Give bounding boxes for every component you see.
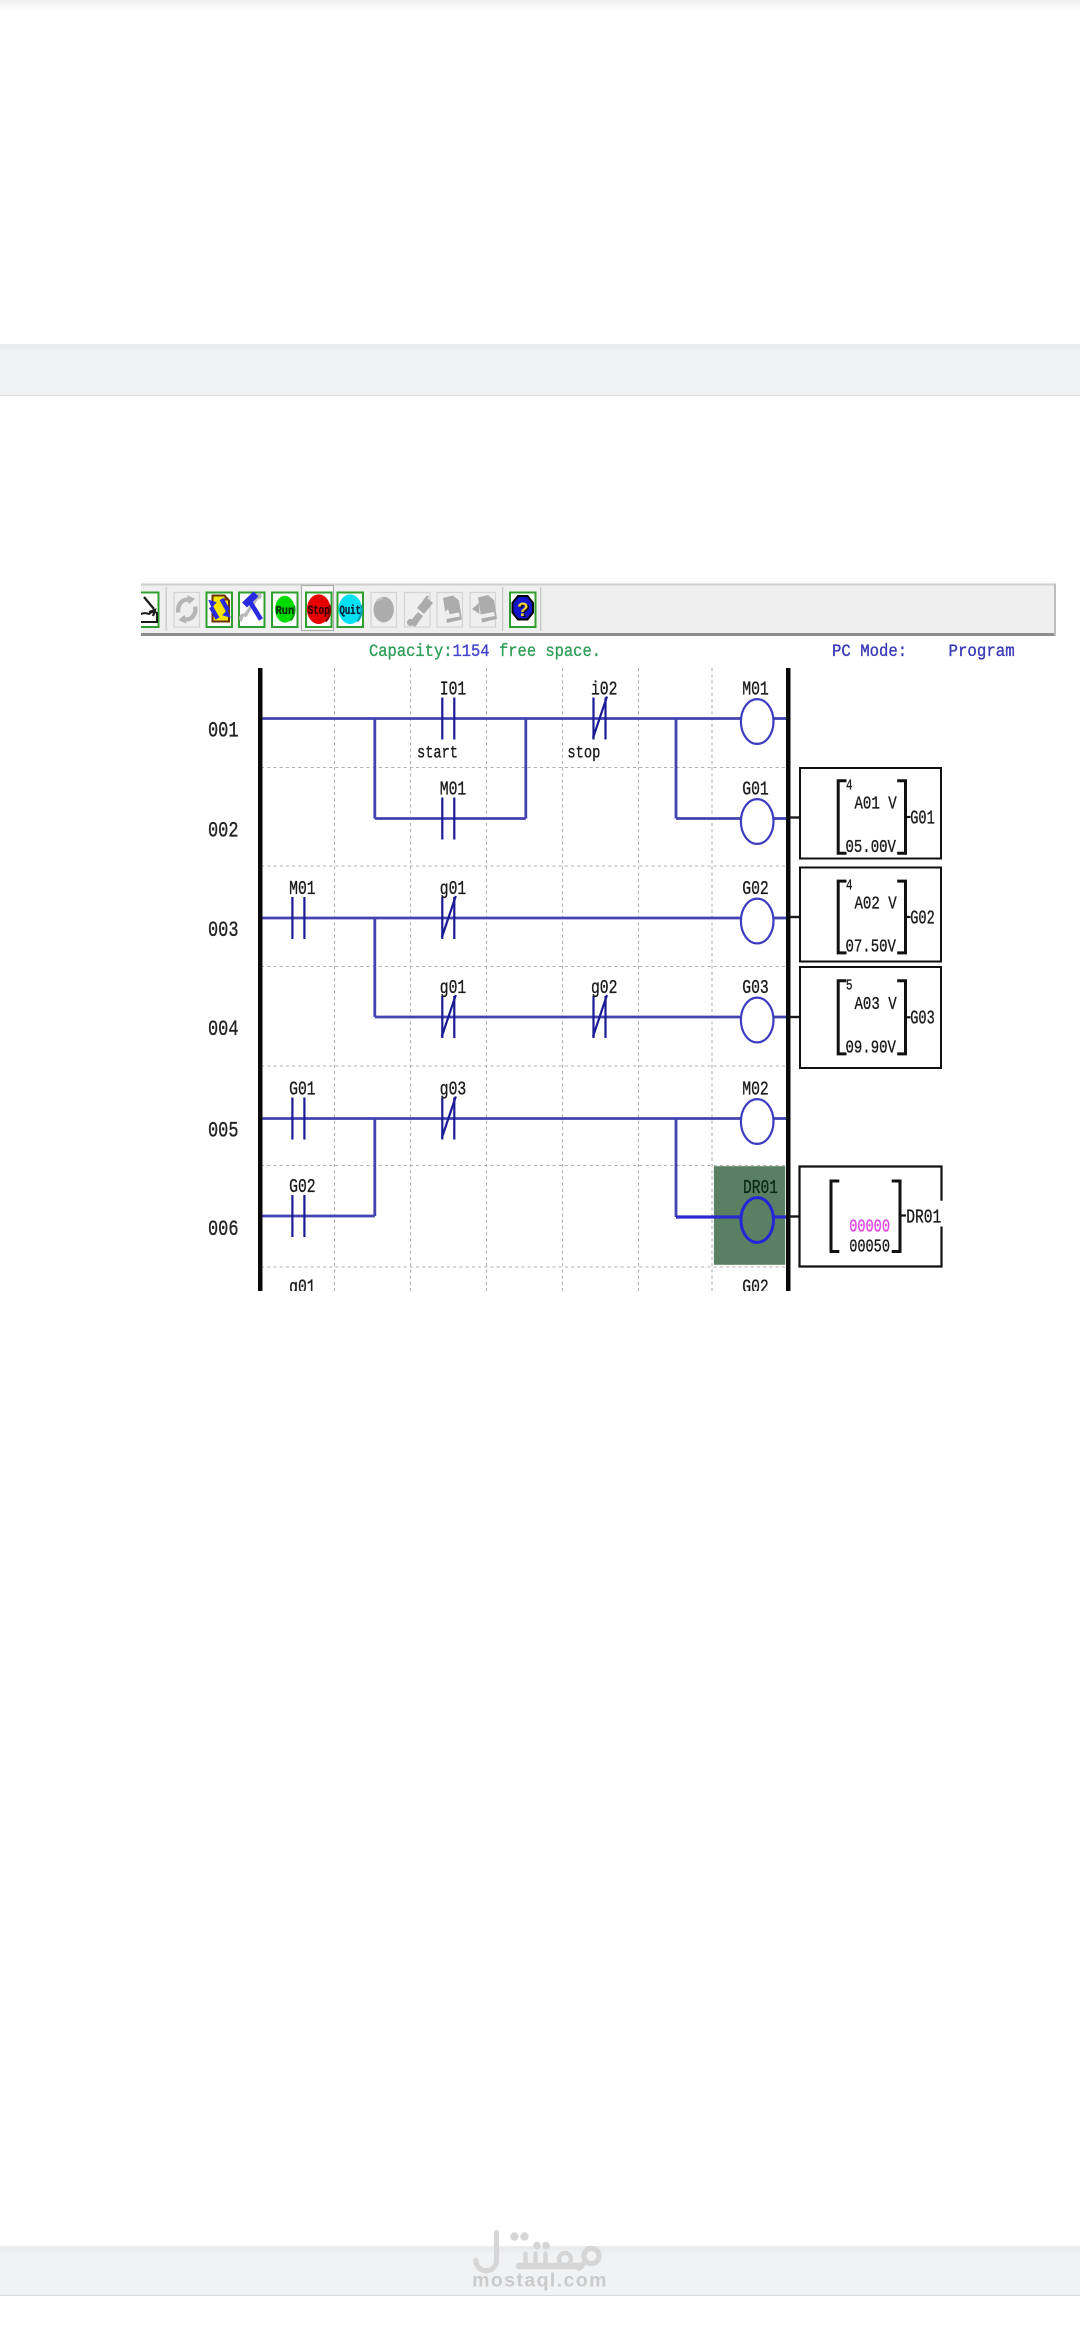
svg-text:g03: g03 — [440, 1078, 467, 1100]
svg-text:Capacity:: Capacity: — [369, 642, 453, 662]
svg-text:Quit: Quit — [339, 604, 361, 618]
wire rung 002 parallel branch — [375, 817, 526, 820]
top page band — [0, 344, 1080, 396]
left power rail — [258, 668, 263, 1291]
svg-text:4: 4 — [846, 777, 853, 794]
bottom page band — [0, 2246, 1080, 2296]
svg-text:00050: 00050 — [849, 1237, 890, 1258]
wire branch down rung 003-004 — [373, 918, 376, 1017]
top page gradient edge — [0, 0, 1080, 11]
svg-text:A01 V: A01 V — [854, 794, 896, 815]
svg-text:DR01: DR01 — [743, 1177, 778, 1199]
watermark mostaql logo — [455, 2225, 625, 2295]
coil G02 rung 003 — [741, 899, 774, 944]
contact g01 (NC) rung 004 — [442, 995, 456, 1038]
wire stub to function block 1 — [790, 816, 801, 818]
lam vertical + hook — [476, 2233, 497, 2271]
svg-text:1154: 1154 — [453, 642, 490, 662]
coil G01 rung 002 — [741, 799, 774, 844]
toolbar separator — [502, 587, 503, 631]
wire stub to function block 4 — [790, 1215, 801, 1217]
grid dashed lines — [261, 668, 790, 1291]
function block U4: counter DR01 — [800, 1167, 942, 1267]
coil G03 rung 004 — [741, 998, 774, 1043]
svg-text:DR01: DR01 — [906, 1207, 941, 1229]
function block U2: analog output G02 — [800, 868, 941, 962]
svg-text:G01: G01 — [742, 778, 769, 800]
wire rung 006 parallel branch — [263, 1215, 375, 1218]
contact g01 (NC) rung 003 — [442, 896, 456, 939]
wire rung 004 to rail — [774, 1016, 787, 1019]
qaf ring — [559, 2253, 571, 2265]
baseline bar with seen teeth — [519, 2263, 581, 2270]
output tick — [902, 1214, 907, 1216]
toolbar background — [141, 581, 1056, 636]
svg-text:004: 004 — [208, 1017, 239, 1042]
contact I01 (NO) rung 001 — [442, 698, 454, 740]
svg-text:g01: g01 — [289, 1276, 316, 1291]
svg-text:G01: G01 — [910, 807, 935, 829]
coil M01 rung 001 — [741, 699, 774, 744]
svg-text:Run: Run — [276, 604, 295, 618]
svg-text:M01: M01 — [289, 878, 316, 900]
coil DR01 rung 006 — [741, 1198, 774, 1243]
svg-text:Program: Program — [949, 642, 1015, 662]
svg-text:G02: G02 — [742, 878, 769, 900]
svg-text:5: 5 — [846, 977, 853, 994]
svg-text:002: 002 — [208, 819, 239, 844]
svg-text:G01: G01 — [289, 1078, 316, 1100]
contact g02 (NC) rung 004 — [593, 995, 607, 1038]
wire rung 003 to rail — [774, 917, 787, 920]
svg-text:Stop: Stop — [308, 604, 330, 618]
output tick — [907, 816, 911, 818]
PLC software screenshot — [141, 581, 1056, 1291]
svg-text:G02: G02 — [742, 1276, 769, 1291]
svg-text:M02: M02 — [742, 1078, 769, 1100]
DR01 highlight box — [714, 1166, 785, 1265]
wire coil DR01 to rail — [774, 1215, 787, 1218]
wire rung 001 — [263, 717, 741, 720]
toolbar icon: open program (cut off) — [133, 593, 159, 628]
toolbar separator — [166, 587, 167, 631]
svg-text:001: 001 — [208, 719, 239, 744]
svg-text:M01: M01 — [440, 778, 467, 800]
svg-text:4: 4 — [846, 878, 853, 895]
wire rung 006 to coil DR01 — [676, 1215, 741, 1218]
toolbar separator — [540, 587, 541, 631]
output tick — [907, 1016, 911, 1018]
contact G02 (NO) rung 006 — [292, 1195, 304, 1237]
toolbar icon: transfer program — [207, 593, 233, 628]
wire branch down rung 005-006 — [373, 1119, 376, 1217]
toolbar icon: tools/settings — [239, 593, 265, 628]
status text: capacity — [369, 642, 601, 662]
wire rung 002 to coil G01 — [676, 817, 741, 820]
toolbar icon: Stop (pressed) — [302, 586, 334, 631]
right power rail — [786, 668, 791, 1291]
svg-text:?: ? — [517, 600, 529, 621]
dots — [510, 2232, 518, 2240]
wire branch up rung 002-001 right — [524, 719, 527, 819]
svg-text:g01: g01 — [440, 977, 467, 999]
svg-text:PC Mode:: PC Mode: — [832, 642, 907, 662]
svg-text:I01: I01 — [440, 678, 467, 700]
status text: PC mode — [832, 642, 1015, 662]
svg-text:mostaql.com: mostaql.com — [472, 2270, 608, 2292]
svg-text:i02: i02 — [591, 678, 618, 700]
contact M01 (NO) rung 003 — [292, 897, 304, 939]
toolbar icon: help — [510, 593, 536, 628]
svg-text:M01: M01 — [742, 678, 769, 700]
output tick — [907, 916, 911, 918]
wire output branch rung 001-002 — [675, 719, 678, 819]
svg-text:05.00V: 05.00V — [846, 837, 896, 858]
toolbar icon: write page (disabled) — [470, 593, 497, 628]
svg-text:A03 V: A03 V — [854, 994, 896, 1015]
toolbar icon: monitor (disabled) — [371, 593, 397, 628]
wire rung 003 — [263, 917, 741, 920]
wire coil G01 to rail — [774, 817, 787, 820]
svg-text:stop: stop — [567, 744, 600, 764]
toolbar icon: Run — [272, 593, 298, 628]
svg-text:G03: G03 — [910, 1008, 935, 1030]
svg-text:003: 003 — [208, 918, 239, 943]
svg-text:00000: 00000 — [849, 1217, 890, 1238]
svg-text:free space.: free space. — [499, 642, 601, 662]
coil M02 rung 005 — [741, 1099, 774, 1144]
wire stub to function block 3 — [790, 1016, 801, 1018]
svg-text:A02 V: A02 V — [854, 894, 896, 915]
svg-text:09.90V: 09.90V — [846, 1038, 896, 1059]
function block U3: analog output G03 — [800, 967, 941, 1068]
svg-text:g02: g02 — [591, 977, 618, 999]
meem ring — [584, 2248, 599, 2263]
svg-text:G03: G03 — [742, 977, 769, 999]
contact M01 (NO) rung 002 — [442, 798, 454, 840]
toolbar icon: refresh (disabled) — [174, 593, 200, 628]
toolbar icon: Quit — [338, 593, 364, 628]
wire rung 004 — [375, 1016, 741, 1019]
toolbar icon: read page (disabled) — [437, 593, 463, 628]
svg-text:G02: G02 — [289, 1176, 316, 1198]
svg-text:start: start — [417, 744, 458, 764]
wire branch down rung 001-002 left — [373, 719, 376, 819]
svg-text:g01: g01 — [440, 878, 467, 900]
svg-text:G02: G02 — [910, 907, 935, 929]
wire output branch rung 005-006 — [675, 1119, 678, 1218]
wire stub to function block 2 — [790, 916, 801, 918]
svg-text:006: 006 — [208, 1217, 239, 1242]
toolbar icon: test (disabled) — [405, 593, 434, 628]
svg-text:005: 005 — [208, 1119, 239, 1144]
contact g03 (NC) rung 005 — [442, 1097, 456, 1140]
contact i02 (NC) rung 001 — [593, 697, 607, 740]
wire rung 005 — [263, 1117, 741, 1120]
contact G01 (NO) rung 005 — [292, 1098, 304, 1140]
function block U1: analog output G01 — [800, 768, 941, 859]
svg-text:07.50V: 07.50V — [846, 937, 896, 958]
wire rung 001 to rail — [774, 717, 787, 720]
wire rung 005 to rail — [774, 1117, 787, 1120]
